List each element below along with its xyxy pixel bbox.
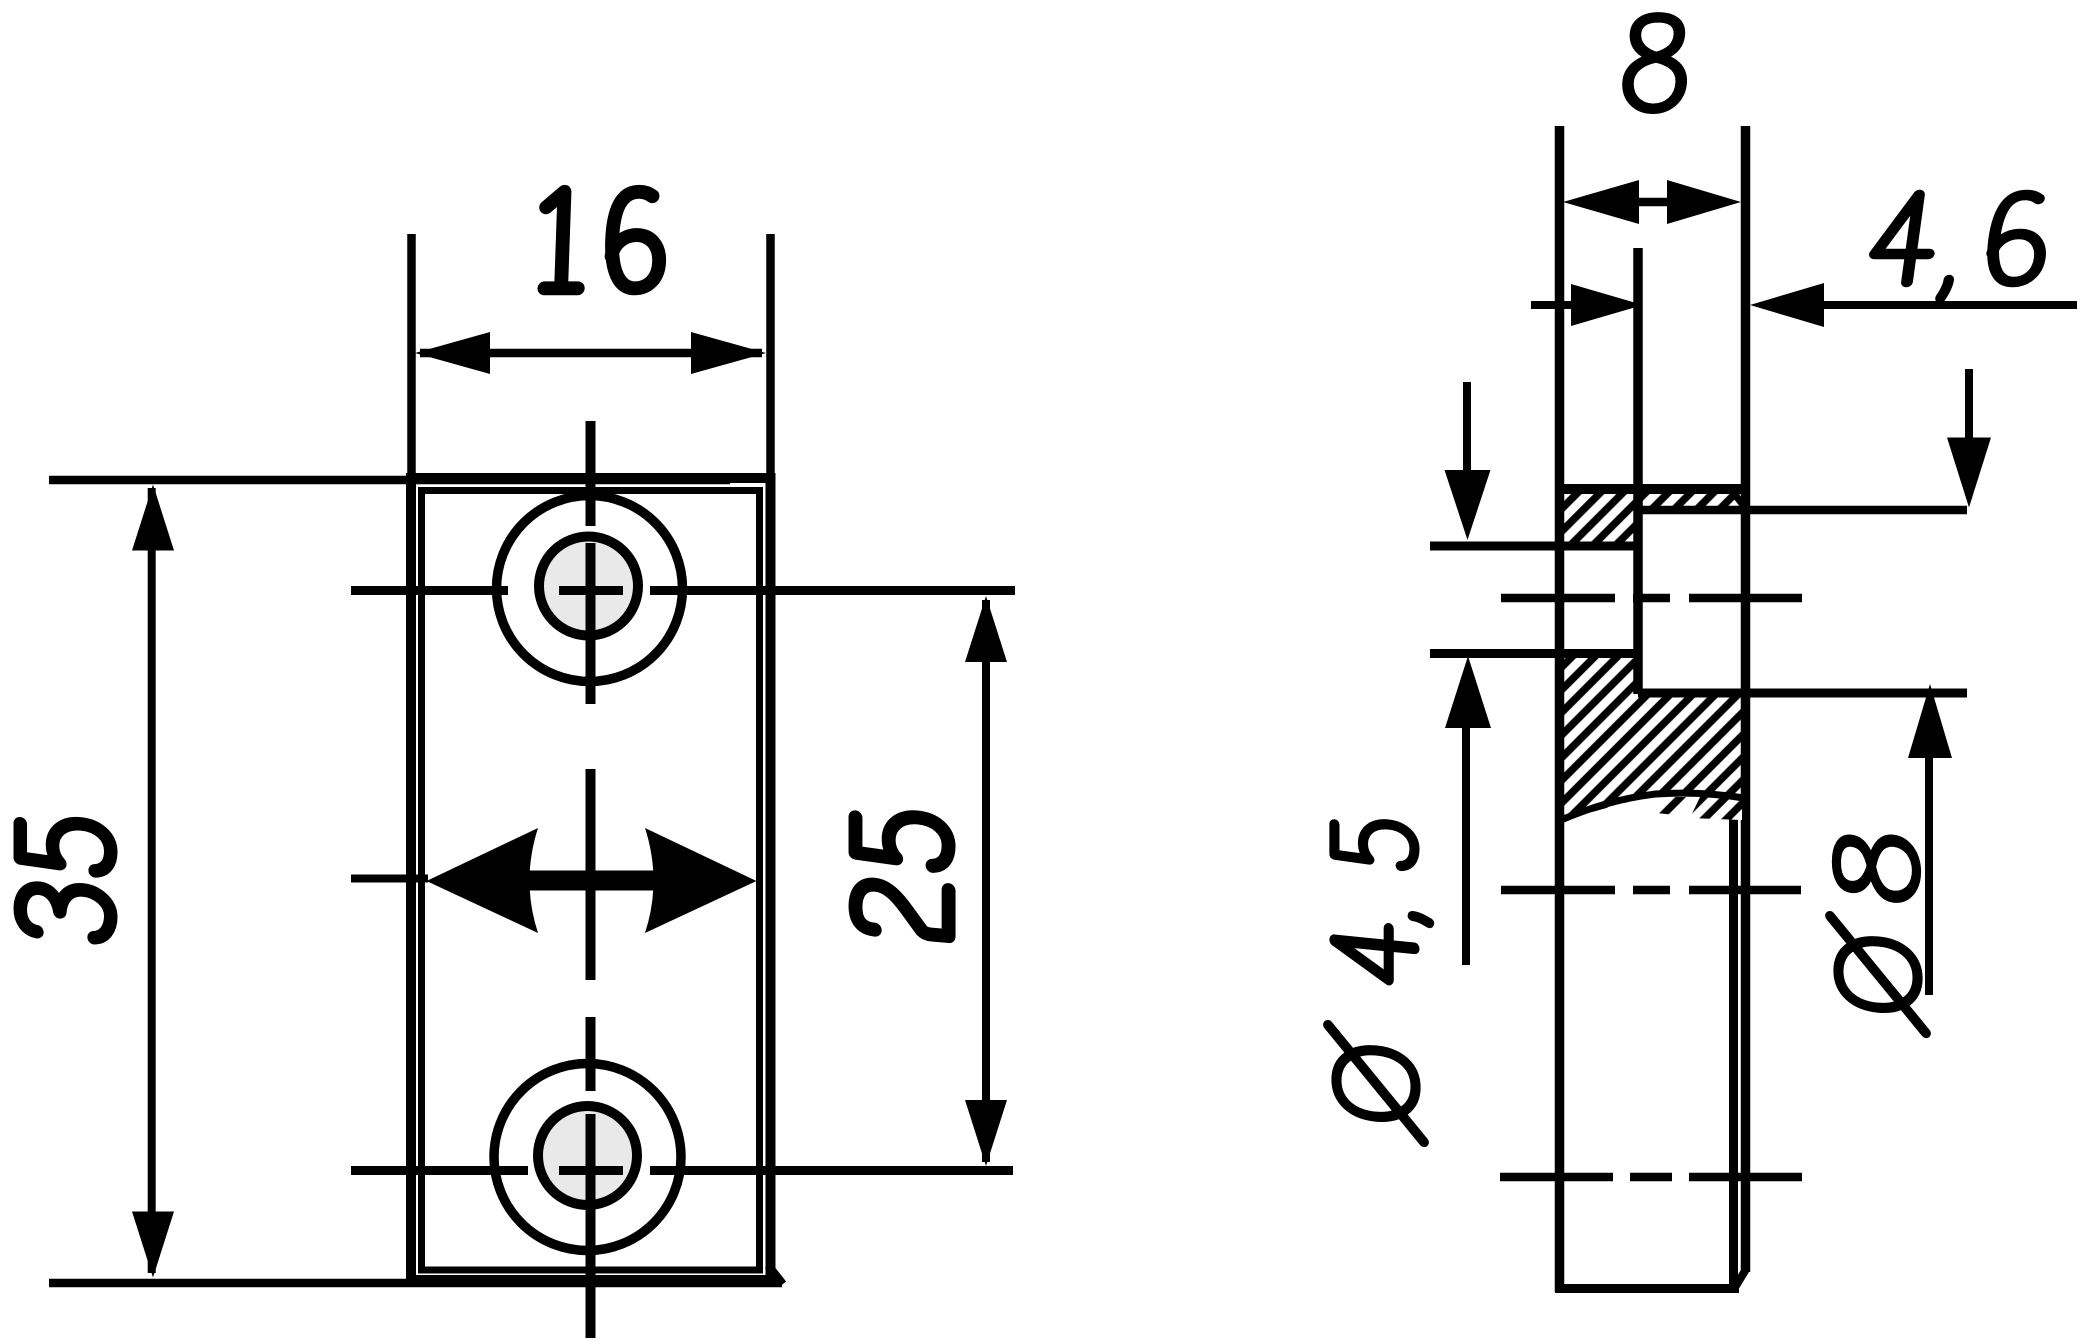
hole H1 (top): center cross redraw	[559, 543, 623, 704]
front view: vertical center line	[586, 421, 596, 1338]
dimension 35: label "35" (rotated)	[20, 819, 110, 940]
front view: bottom-right corner tick	[768, 1265, 783, 1284]
dimension 25: label "25" (rotated)	[855, 812, 948, 936]
side view: counterbore wall (middle vertical line)	[1633, 248, 1643, 694]
side view: inner right line (thread/hole wall below break)	[1729, 808, 1738, 1289]
hole H2 (bottom): center cross redraw	[559, 1114, 623, 1338]
side view: hole bottom line (extends left as extension line)	[1430, 649, 1638, 658]
dimension 8: label "8"	[1627, 17, 1685, 108]
hole H2 (bottom): inner hole circle (gray fill)	[538, 1106, 637, 1205]
hole H1 (top): horizontal center line / extension line for 25	[351, 586, 1015, 595]
side view: break line (wavy)	[1561, 793, 1744, 820]
hole H1 (top): inner hole circle (gray fill)	[539, 537, 638, 636]
side view: top face	[1555, 484, 1746, 494]
side view: counterbore bottom line (extends right as extension line)	[1642, 506, 1967, 515]
dimension 16: label "16"	[543, 192, 661, 289]
dimension 4,6: small arrow pointing right at counterbore wall	[1531, 284, 1643, 326]
dimension 4,6: leader line from right with arrowhead	[1750, 283, 2077, 327]
hole H2 (bottom): horizontal center line / extension line for 25	[351, 1166, 1013, 1175]
dimension diameter 8: label "O8" (rotated)	[1830, 834, 1926, 1033]
front view: plate outer outline	[411, 478, 771, 1280]
dimension 8: dimension line with arrowheads	[1563, 180, 1741, 224]
dimension diameter 4,5: up arrow and dimension line	[1445, 656, 1491, 965]
front view: plate inner outline	[422, 491, 760, 1271]
side view: left edge / extension line	[1555, 126, 1565, 1292]
counterbore depth arrow right (points down to counterbore bottom line)	[1947, 369, 1991, 508]
side view: hatch fragments below break line	[1656, 797, 1742, 820]
side view: hole H1 center line	[1501, 594, 1802, 603]
counterbore depth arrow left (points down to hole top line)	[1445, 382, 1491, 540]
side view: bottom face	[1555, 1284, 1739, 1293]
side view: hole H2 center line	[1500, 1173, 1802, 1182]
side view: top-right corner chamfer tick	[1729, 487, 1743, 505]
dimension 4,6: label "4,6"	[1871, 195, 2048, 298]
hole H1 (top): counterbore outer circle	[497, 496, 683, 682]
dimension diameter 4,5: label "O 4,5" (rotated)	[1328, 820, 1429, 1142]
side view: section hatching upper-right (counterbore lip)	[1642, 493, 1742, 511]
hole H2 (bottom): counterbore outer circle	[494, 1064, 681, 1251]
slide direction double arrow: left extension line	[351, 875, 428, 883]
dimension diameter 8: up arrow and dimension line	[1908, 684, 1952, 995]
side view: hole top line (extends left as extension line)	[1430, 542, 1638, 551]
side view: step line (extends right as extension line for diameter 8)	[1638, 689, 1967, 698]
slide direction double arrow	[427, 828, 757, 933]
dimension 25: dimension line with arrowheads	[965, 596, 1007, 1166]
dimension 35: dimension line with arrowheads	[132, 485, 174, 1278]
dimension 16: extension lines	[412, 234, 771, 476]
dimension 16: dimension line with arrowheads	[415, 332, 766, 374]
side view: bottom-right corner chamfer	[1734, 1270, 1746, 1289]
side view: middle center line	[1501, 886, 1801, 895]
side view: section hatching upper-left (above hole)	[1564, 493, 1634, 547]
side view: section hatching below hole down to break line	[1564, 652, 1742, 820]
side view: right edge / extension line	[1741, 126, 1751, 1272]
dimension 35: extension lines	[49, 480, 782, 1283]
